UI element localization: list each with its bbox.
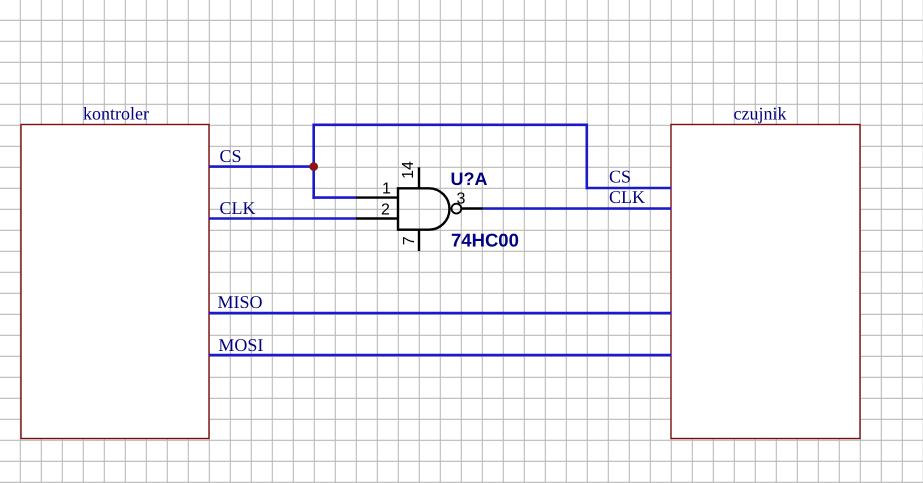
svg-text:CLK: CLK <box>220 198 256 218</box>
svg-text:U?A: U?A <box>451 169 488 189</box>
svg-text:kontroler: kontroler <box>83 104 149 124</box>
box czujnik <box>671 125 860 439</box>
wire top bypass horizontal <box>313 124 589 127</box>
svg-text:CS: CS <box>609 167 631 187</box>
pin 14 stub <box>418 167 420 188</box>
svg-text:7: 7 <box>401 236 418 245</box>
wire right vertical drop <box>585 124 588 190</box>
node junction on CS <box>309 162 318 171</box>
wire MOSI <box>209 354 672 357</box>
pin 3 stub <box>462 207 483 209</box>
svg-text:74HC00: 74HC00 <box>451 230 519 251</box>
wire MISO <box>209 312 672 315</box>
wire gate output to czujnik CLK <box>483 207 672 210</box>
gate output bubble <box>452 204 462 214</box>
svg-text:MOSI: MOSI <box>218 335 263 355</box>
op-amp gate U?A body (74HC00 NAND) <box>398 188 449 229</box>
svg-text:MISO: MISO <box>218 292 263 312</box>
svg-text:CS: CS <box>220 146 242 166</box>
pin 2 stub <box>356 217 398 219</box>
svg-text:czujnik: czujnik <box>734 104 787 124</box>
wire vertical through junction <box>312 124 315 199</box>
svg-text:1: 1 <box>382 180 391 197</box>
box kontroler <box>21 125 209 439</box>
svg-text:2: 2 <box>381 202 390 219</box>
wire CLK from kontroler <box>209 217 356 220</box>
pin 1 stub <box>356 196 398 198</box>
wire CS from kontroler <box>209 165 315 168</box>
svg-text:3: 3 <box>457 191 466 208</box>
wire CS into czujnik <box>586 187 672 190</box>
svg-text:14: 14 <box>400 161 417 179</box>
wire to gate pin 1 <box>312 196 356 199</box>
svg-text:CLK: CLK <box>609 187 645 207</box>
pin 7 stub <box>418 230 420 251</box>
